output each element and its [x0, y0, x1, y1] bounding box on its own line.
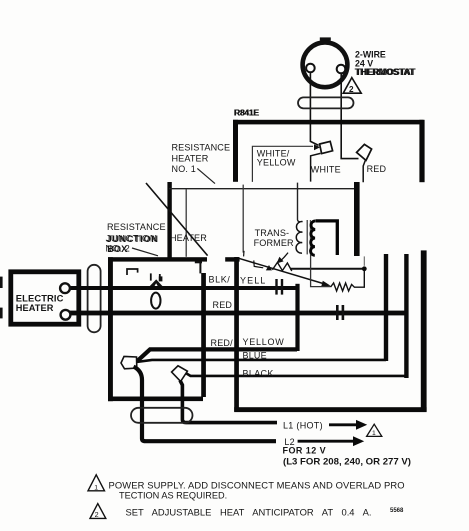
- svg-text:RESISTANCE: RESISTANCE: [172, 143, 231, 153]
- terminal stub T inside junction box: [195, 262, 202, 273]
- small n symbol: [127, 269, 138, 275]
- svg-text:YELLOW: YELLOW: [243, 337, 285, 347]
- wire BLUE horizontal: [137, 360, 387, 362]
- right box bottom edge: [234, 407, 426, 412]
- blue riser bar: [384, 254, 388, 361]
- svg-text:(L3 FOR 208, 240, OR 277 V): (L3 FOR 208, 240, OR 277 V): [283, 456, 411, 467]
- svg-text:FOR 12 V: FOR 12 V: [283, 445, 327, 455]
- thermostat terminal left: [306, 64, 315, 73]
- note 1 text: [109, 479, 405, 500]
- svg-text:RED/: RED/: [211, 338, 234, 348]
- wire nut white/yellow: [320, 141, 333, 153]
- svg-text:BLK/: BLK/: [209, 275, 231, 285]
- wire YELLOW horizontal: [138, 349, 298, 360]
- svg-text:RED: RED: [213, 300, 233, 310]
- cable clamp capsule bottom: [131, 408, 193, 423]
- black riser bar: [404, 254, 408, 378]
- note reference triangle 1 at L1: [367, 424, 382, 437]
- middle box top line: [169, 188, 356, 190]
- svg-text:BLACK: BLACK: [243, 368, 274, 378]
- L1 lead down through clamp: [180, 380, 277, 422]
- node dot: [362, 266, 367, 271]
- svg-text:NO. 1: NO. 1: [172, 164, 197, 174]
- wire RED horizontal: [69, 311, 407, 316]
- wire red lead down: [363, 160, 365, 183]
- anticipator zigzag on arm: [272, 262, 291, 271]
- note triangle 1: [88, 475, 105, 492]
- transformer core lines: [307, 220, 310, 254]
- relay arm diagonal: [238, 258, 330, 286]
- conduit capsule left: [88, 265, 101, 333]
- svg-text:TRANS-: TRANS-: [255, 228, 290, 238]
- junction box top edge left piece: [108, 257, 207, 261]
- adjuster arrow: [277, 253, 288, 264]
- svg-text:POWER SUPPLY. ADD DISCONNECT M: POWER SUPPLY. ADD DISCONNECT MEANS AND O…: [109, 479, 405, 490]
- middle box left edge bar: [167, 182, 171, 258]
- wire BLACK horizontal: [184, 372, 406, 376]
- note triangle 2: [90, 504, 106, 519]
- yellow riser: [295, 284, 299, 351]
- thermostat circle: [303, 37, 348, 87]
- R841E box top edge: [233, 120, 424, 125]
- R841E box right side: [419, 120, 424, 182]
- wire inside middle box at x=243: [242, 185, 244, 253]
- electric heater box: [11, 272, 79, 324]
- note reference triangle 2 at thermostat: [343, 78, 361, 94]
- right box left edge: [234, 257, 239, 412]
- svg-text:TECTION AS REQUIRED.: TECTION AS REQUIRED.: [119, 491, 227, 501]
- svg-text:THERMOSTAT: THERMOSTAT: [355, 67, 415, 77]
- transformer primary inlet wire: [298, 183, 301, 222]
- svg-text:2: 2: [95, 510, 99, 519]
- svg-text:HEATER: HEATER: [16, 303, 54, 313]
- svg-text:BLUE: BLUE: [243, 350, 267, 360]
- svg-text:1: 1: [372, 430, 376, 437]
- junction box left edge: [108, 257, 113, 401]
- junction box top edge right piece: [225, 257, 239, 261]
- svg-text:JUNCTION: JUNCTION: [106, 233, 158, 243]
- scan edge nub upper: [0, 277, 3, 288]
- label NO. 2 over BOX overlapped: [105, 244, 130, 255]
- svg-text:YELLOW: YELLOW: [257, 158, 296, 168]
- arrow from label to wire nut: [314, 144, 320, 150]
- heater terminal lower: [61, 310, 71, 320]
- thermostat terminal right: [337, 65, 346, 74]
- label ELECTRIC HEATER: [16, 293, 64, 314]
- wire thermostat right lead: [341, 73, 358, 158]
- svg-text:5568: 5568: [390, 508, 404, 514]
- relay contact triangle: [266, 265, 272, 270]
- leader line from NO. 1: [197, 168, 215, 183]
- svg-text:RED: RED: [367, 164, 387, 174]
- L2 lead down through clamp: [134, 367, 277, 442]
- svg-text:YELL: YELL: [240, 276, 266, 286]
- label 2-WIRE 24V THERMOSTAT: [355, 49, 417, 77]
- wire nut A (L2): [121, 356, 137, 368]
- label JUNCTION overlapped: [106, 233, 159, 244]
- transformer secondary lead: [316, 221, 338, 255]
- svg-text:HEATER: HEATER: [172, 154, 209, 164]
- L1 arrow: [329, 420, 367, 430]
- wire nut red: [357, 144, 372, 160]
- element symbol with triangle base: [150, 273, 163, 286]
- splice ticks on BLK/YELL wire: [275, 279, 283, 295]
- anticipator resistor branch: [311, 255, 365, 291]
- label TRANS-FORMER: [254, 228, 294, 248]
- wire inside middle box at x=186: [185, 189, 187, 257]
- right box right edge: [421, 250, 427, 411]
- splice ticks on RED wire: [336, 305, 344, 320]
- lead bar red (from relay): [354, 182, 360, 256]
- svg-text:ELECTRIC: ELECTRIC: [16, 293, 64, 304]
- cable clamp capsule top: [298, 97, 354, 108]
- svg-text:WHITE: WHITE: [311, 165, 341, 175]
- faint wire above node: [363, 256, 365, 265]
- svg-text:SET ADJUSTABLE HEAT ANTICIPATO: SET ADJUSTABLE HEAT ANTICIPATOR AT 0.4 A…: [126, 506, 372, 517]
- svg-text:RESISTANCE: RESISTANCE: [107, 222, 166, 232]
- relay bracket: [254, 260, 263, 267]
- leader line from NO. 2: [132, 248, 158, 256]
- transformer secondary coil thick: [311, 221, 316, 255]
- wire white lead down: [311, 153, 321, 181]
- scan edge nub lower: [0, 308, 3, 319]
- wire BLK/YELL horizontal: [69, 286, 298, 290]
- heater element 0 loop: [151, 293, 160, 309]
- relay pivot tick: [243, 251, 245, 257]
- svg-text:FORMER: FORMER: [254, 238, 294, 248]
- svg-text:R841E: R841E: [234, 107, 259, 117]
- transformer primary coil: [296, 222, 303, 254]
- wire thermostat left lead: [310, 72, 318, 145]
- svg-text:1: 1: [94, 484, 98, 491]
- svg-text:NO. 2: NO. 2: [105, 244, 130, 254]
- heater terminal upper: [60, 283, 70, 293]
- label box WHITE/YELLOW: [252, 146, 313, 182]
- relay output line to node: [290, 268, 362, 270]
- svg-text:L1 (HOT): L1 (HOT): [283, 420, 323, 430]
- svg-text:HEATER: HEATER: [170, 233, 207, 243]
- wire nut B (L1): [172, 366, 188, 382]
- junction box bottom edge: [108, 397, 203, 402]
- long diagonal heater element line: [146, 183, 208, 256]
- label RESISTANCE HEATER NO. 1: [172, 143, 231, 175]
- label R841E: [234, 107, 260, 117]
- svg-text:2: 2: [349, 85, 354, 94]
- junction box internal lead thick: [201, 273, 206, 397]
- L2 arrow: [298, 436, 365, 446]
- R841E box left side: [233, 120, 238, 182]
